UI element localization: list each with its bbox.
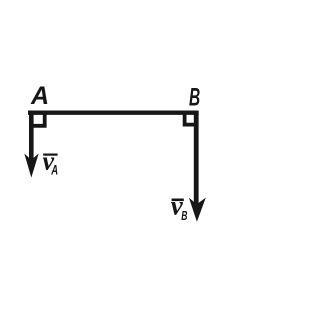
- svg-text:A: A: [30, 82, 49, 110]
- svg-text:B: B: [189, 84, 200, 112]
- svg-text:B: B: [181, 210, 187, 224]
- svg-text:A: A: [51, 162, 59, 178]
